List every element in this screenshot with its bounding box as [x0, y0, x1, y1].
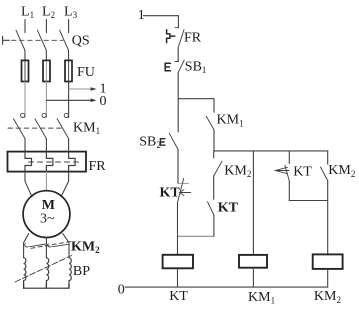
contactor KM1 auxiliary NO contact — [206, 99, 214, 151]
wire KT coil to 0 rail — [177, 268, 179, 287]
wire rotor star bar — [24, 284, 69, 288]
time relay KT mid NO contact — [208, 202, 214, 215]
svg-text:KT: KT — [169, 289, 188, 304]
time relay KT delayed NC contact left — [178, 178, 191, 202]
wire node 1 to FR contact — [144, 16, 179, 28]
svg-text:KM2: KM2 — [224, 163, 251, 179]
wire 0 rail — [125, 286, 328, 288]
coil KT — [163, 255, 193, 268]
switch QS pole 3 blade — [60, 30, 69, 50]
wire node 2 branch to KM1 aux — [178, 98, 214, 100]
wire QS to FU pole 3 — [68, 50, 70, 61]
wire rail to KM1 coil — [252, 151, 254, 255]
svg-text:0: 0 — [118, 282, 125, 297]
wire rotor phase 2 — [45, 238, 47, 258]
contactor KM2 mid NO contact — [214, 151, 222, 176]
svg-text:FR: FR — [184, 30, 202, 45]
pushbutton SB2 NO contact — [169, 99, 178, 150]
thermal relay FR heater box — [8, 152, 87, 172]
svg-text:SB2: SB2 — [139, 135, 161, 151]
svg-text:KM1: KM1 — [248, 290, 275, 306]
wire KM1 coil to 0 rail — [252, 268, 254, 287]
thermal relay FR heater element 2 — [46, 152, 53, 172]
svg-text:L2: L2 — [42, 5, 55, 21]
fuse FU1 — [24, 61, 26, 82]
node 1 tap wire with arrow — [69, 88, 91, 90]
wire rotor phase 3 — [63, 234, 69, 258]
switch QS pole 1 blade — [16, 30, 25, 50]
wire FU1 to KM1 — [24, 82, 26, 118]
wire SB1 to junction node 2 — [177, 72, 179, 98]
svg-text:SB1: SB1 — [185, 59, 207, 75]
motor M circle — [23, 191, 70, 238]
svg-text:KT: KT — [160, 185, 181, 200]
svg-text:M: M — [42, 198, 55, 213]
contactor KM1 main contact pole 1 — [14, 113, 26, 151]
wire KT contact to junction — [177, 203, 179, 237]
wire rail node 3 — [214, 150, 328, 152]
svg-text:KM1: KM1 — [73, 120, 100, 136]
wire L1 top stub — [24, 20, 26, 33]
wire FU2 to KM1 — [45, 82, 47, 118]
wire SB2 to KT contact — [177, 149, 179, 183]
wire KM2 aux to KM2 coil — [327, 181, 329, 255]
contactor KM1 linkage dashed line — [8, 127, 63, 129]
wire rotor phase 1 — [24, 234, 29, 258]
pushbutton SB2 actuator E — [160, 139, 165, 146]
thermal relay FR linkage dashed line — [29, 161, 80, 163]
pushbutton SB1 actuator E — [165, 63, 170, 71]
fuse FU3 — [68, 61, 70, 82]
svg-text:KM2: KM2 — [328, 163, 355, 179]
svg-text:KT: KT — [293, 165, 312, 180]
svg-text:FU: FU — [77, 65, 95, 80]
switch QS pole 2 blade — [37, 30, 46, 50]
wire FR to motor phase 2 — [45, 172, 47, 191]
svg-text:QS: QS — [72, 34, 90, 49]
thermal relay FR NC contact — [175, 28, 184, 48]
wire KT right to connector — [288, 181, 290, 201]
svg-text:L1: L1 — [21, 5, 34, 21]
svg-text:0: 0 — [100, 94, 107, 109]
wire FR to motor phase 1 — [25, 172, 32, 197]
rheostat BP coil 3 — [69, 258, 71, 288]
wire KT mid to junction — [213, 215, 215, 236]
rheostat BP coil 1 — [24, 258, 26, 288]
wire FR to motor phase 3 — [61, 172, 69, 197]
coil KM1 — [239, 255, 267, 268]
contactor KM2 rotor contact A fixed point — [25, 244, 28, 247]
thermal relay FR heater element 3 — [69, 152, 76, 172]
svg-text:KT: KT — [218, 200, 239, 215]
wire junction horizontal — [178, 235, 214, 237]
contactor KM2 rotor contact B fixed point — [48, 244, 51, 247]
contactor KM2 rotor contact B blade — [52, 244, 68, 246]
wire L2 top stub — [45, 20, 47, 33]
thermal relay FR heater element 1 — [25, 152, 32, 172]
wire connector KT to KM2 branch — [289, 200, 327, 202]
wire FU3 to KM1 — [68, 82, 70, 118]
wire KM2 mid to KT mid — [213, 176, 215, 199]
thermal relay FR actuator symbol — [167, 30, 175, 43]
wire L3 top stub — [68, 20, 70, 33]
svg-text:L3: L3 — [64, 5, 78, 21]
svg-text:3~: 3~ — [40, 212, 55, 227]
node 0 tap wire with arrow — [46, 99, 91, 101]
contactor KM2 rotor linkage dashed line — [31, 242, 71, 249]
svg-text:KM1: KM1 — [217, 113, 244, 129]
wire KM2 coil to 0 rail — [327, 269, 329, 287]
wire QS to FU pole 2 — [45, 50, 47, 61]
contactor KM1 main contact pole 2 — [35, 113, 47, 151]
contactor KM2 rotor contact A blade — [30, 244, 46, 247]
switch QS handle — [3, 36, 10, 44]
contactor KM1 main contact pole 3 — [57, 113, 69, 151]
pushbutton SB1 NC contact — [175, 60, 184, 72]
svg-text:KM2: KM2 — [71, 239, 100, 255]
rheostat BP coil 2 — [46, 258, 48, 288]
time relay KT delayed NO contact right — [275, 151, 289, 181]
svg-text:FR: FR — [89, 159, 107, 174]
wire QS to FU pole 1 — [24, 50, 26, 61]
switch QS linkage dashed line — [12, 39, 64, 41]
wire FR to SB1 — [177, 48, 179, 62]
fuse FU2 — [45, 61, 47, 82]
rheostat BP slash line — [15, 256, 72, 283]
svg-text:BP: BP — [73, 264, 90, 279]
coil KM2 — [313, 254, 343, 269]
wire junction to KT coil — [177, 236, 179, 255]
contactor KM2 aux NO contact — [321, 151, 328, 181]
svg-text:KM2: KM2 — [314, 289, 341, 305]
